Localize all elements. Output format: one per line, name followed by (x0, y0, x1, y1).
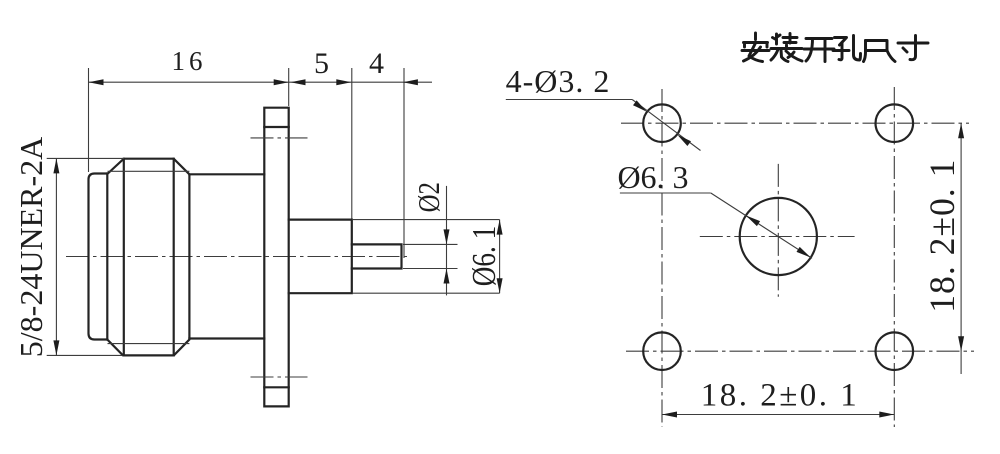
svg-text:5: 5 (314, 47, 329, 80)
svg-text:Ø6. 3: Ø6. 3 (617, 159, 688, 195)
svg-text:18. 2±0. 1: 18. 2±0. 1 (701, 378, 860, 414)
svg-text:Ø6. 1: Ø6. 1 (465, 226, 503, 286)
svg-text:5/8-24UNER-2A: 5/8-24UNER-2A (13, 137, 49, 357)
svg-text:4: 4 (369, 47, 384, 80)
svg-text:18. 2±0. 1: 18. 2±0. 1 (922, 159, 962, 313)
svg-text:Ø2: Ø2 (412, 182, 446, 212)
svg-text:16: 16 (172, 46, 207, 76)
svg-text:4-Ø3. 2: 4-Ø3. 2 (506, 63, 611, 99)
